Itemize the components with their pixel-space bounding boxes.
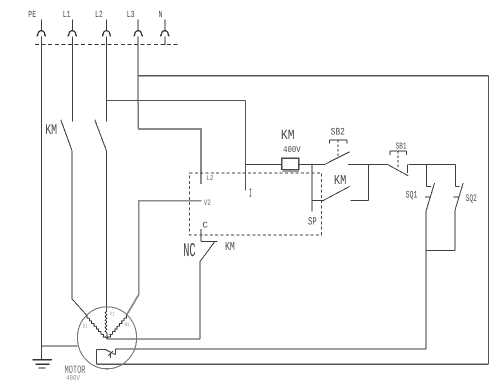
svg-text:L2: L2	[206, 175, 213, 183]
svg-text:KM: KM	[281, 129, 295, 144]
svg-text:SQ2: SQ2	[466, 194, 477, 205]
svg-text:I: I	[249, 188, 252, 201]
svg-text:V1: V1	[110, 312, 115, 318]
svg-text:SB1: SB1	[396, 142, 407, 152]
svg-text:400V: 400V	[283, 146, 301, 156]
svg-text:SB2: SB2	[331, 127, 345, 138]
svg-text:KM: KM	[225, 241, 235, 254]
svg-text:V2: V2	[204, 199, 211, 208]
svg-text:KM: KM	[45, 124, 57, 140]
svg-text:NC: NC	[183, 242, 195, 263]
svg-text:W1: W1	[125, 322, 130, 328]
svg-text:N: N	[159, 10, 163, 20]
svg-text:L2: L2	[95, 10, 103, 20]
svg-text:SP: SP	[308, 217, 317, 229]
svg-text:L1: L1	[63, 10, 71, 20]
svg-text:400V: 400V	[66, 375, 80, 383]
svg-text:KM: KM	[334, 175, 346, 190]
svg-text:SQ1: SQ1	[406, 191, 418, 202]
svg-text:U1: U1	[83, 323, 88, 329]
svg-text:L3: L3	[127, 10, 135, 20]
svg-text:C: C	[202, 221, 208, 230]
svg-text:PE: PE	[28, 10, 36, 20]
